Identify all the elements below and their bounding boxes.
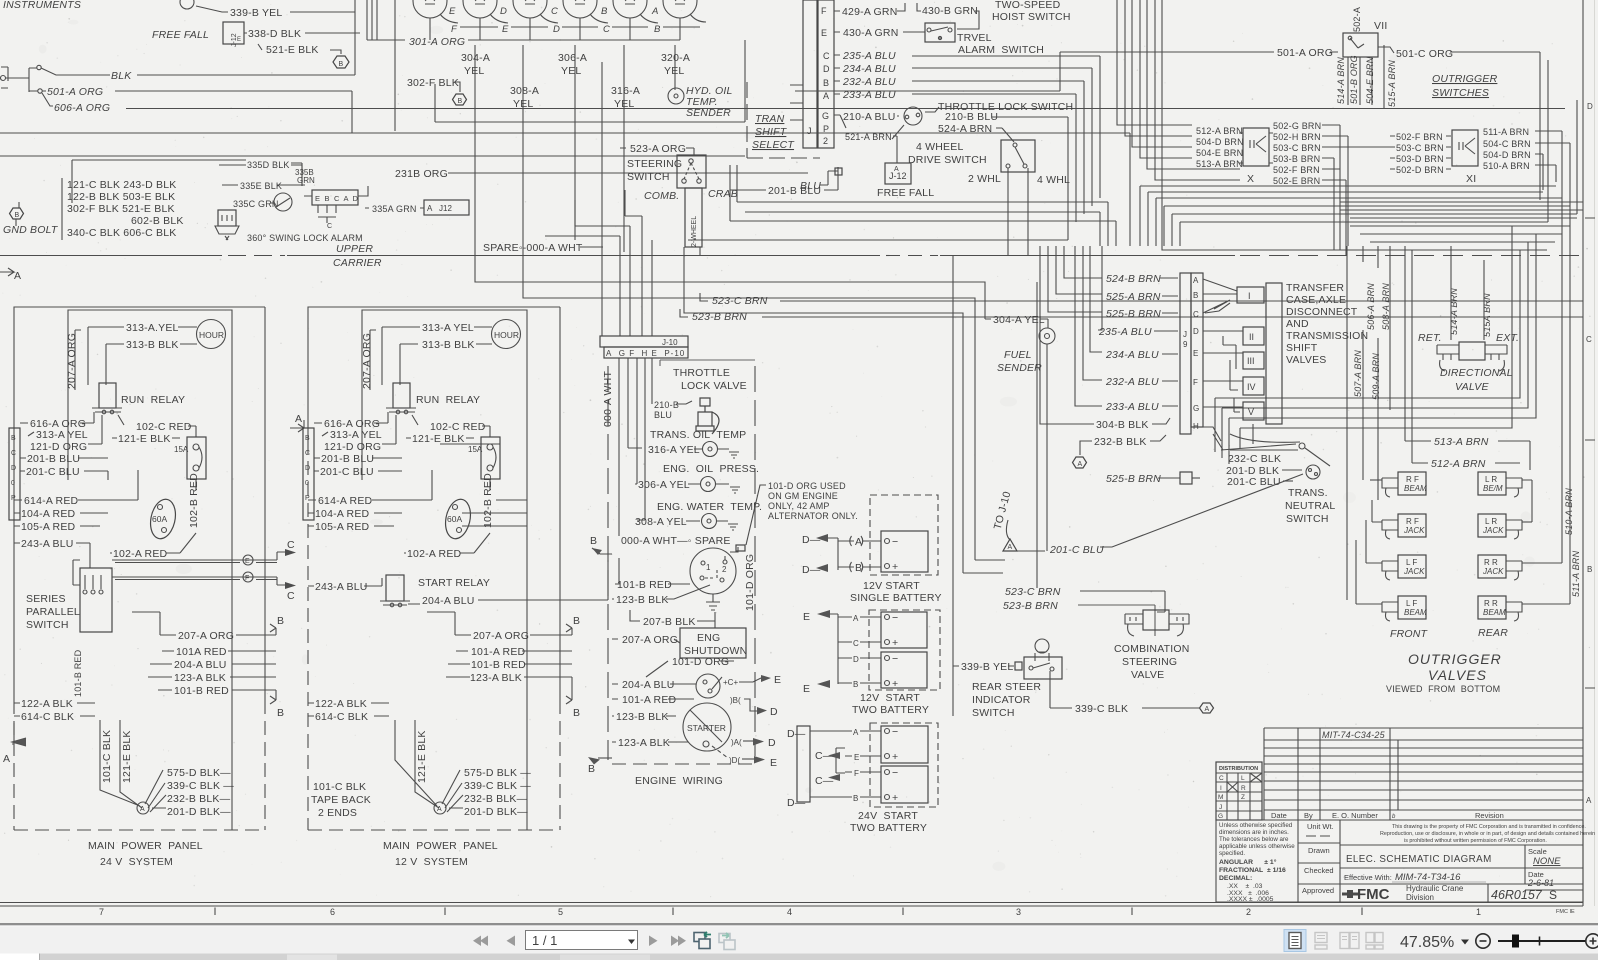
svg-text:SINGLE BATTERY: SINGLE BATTERY	[850, 592, 942, 604]
svg-text:FREE FALL: FREE FALL	[152, 29, 209, 41]
svg-text:501-A ORG: 501-A ORG	[1277, 47, 1333, 59]
svg-text:2: 2	[1246, 907, 1251, 917]
wire 616-A ORG 12v	[314, 412, 388, 423]
svg-text:7: 7	[99, 907, 104, 917]
wire 121-D ORG 12v	[382, 415, 500, 444]
svg-text:dimensions are in inches.: dimensions are in inches.	[1219, 829, 1289, 836]
valve III box	[1243, 352, 1264, 369]
svg-text:12 V SYSTEM: 12 V SYSTEM	[395, 856, 468, 868]
carrier divider line	[0, 255, 1235, 257]
outrigger valve LR JACK	[1478, 514, 1532, 539]
collector box	[1266, 283, 1282, 424]
wire 105-A RED	[14, 525, 100, 527]
svg-text:304-B BLK: 304-B BLK	[1096, 419, 1149, 431]
svg-text:XI: XI	[1466, 173, 1476, 185]
wire 102-C RED	[118, 415, 196, 437]
svg-text:2: 2	[722, 565, 727, 574]
node B arrows 12v	[566, 624, 572, 704]
svg-text:FMC IE: FMC IE	[1556, 909, 1575, 915]
svg-text:B: B	[305, 435, 310, 442]
svg-text:VALVE: VALVE	[1455, 381, 1489, 393]
svg-text:VIEWED FROM BOTTOM: VIEWED FROM BOTTOM	[1386, 684, 1500, 694]
svg-text:101-D ORG: 101-D ORG	[672, 656, 729, 668]
wire 121-E BLK 12v	[406, 437, 474, 439]
svg-text:applicable unless otherwise: applicable unless otherwise	[1219, 843, 1295, 850]
svg-text:316-A YEL: 316-A YEL	[648, 444, 700, 456]
svg-text:+: +	[892, 678, 898, 690]
svg-text:525-B BRN: 525-B BRN	[1106, 473, 1161, 485]
engine wiring box	[608, 366, 755, 760]
wire E F to C arrows	[112, 560, 277, 580]
distributor circle	[690, 548, 736, 594]
SEC-PANEL24	[0, 268, 296, 868]
terminal hex B	[453, 94, 467, 105]
svg-text:BEAM: BEAM	[1404, 608, 1427, 617]
SEC-GAUGES	[367, 0, 795, 252]
svg-text:D: D	[768, 737, 776, 749]
svg-text:123-A BLK: 123-A BLK	[470, 672, 522, 684]
hour meter circle 12v	[492, 320, 521, 349]
wire 501-C ORG	[1378, 47, 1540, 200]
panel 12V outer box	[308, 307, 560, 700]
last page button	[671, 936, 679, 947]
svg-text:C: C	[603, 24, 610, 35]
rear steer indicator switch	[1035, 639, 1049, 653]
svg-text:D—: D—	[787, 728, 806, 740]
node B arrow engine left	[592, 548, 612, 554]
outrigger valve LF JACK	[1366, 520, 1426, 580]
SEC-PANEL12	[290, 307, 608, 868]
svg-text:313-A YEL: 313-A YEL	[330, 429, 382, 441]
wires into node A	[100, 720, 166, 812]
svg-text:REAR STEER: REAR STEER	[972, 681, 1041, 693]
svg-text:506-A BRN: 506-A BRN	[1366, 283, 1376, 330]
terminal hex A rear	[1200, 703, 1214, 713]
svg-text:3: 3	[1016, 907, 1021, 917]
svg-text:TWO BATTERY: TWO BATTERY	[850, 822, 927, 834]
center mesh extra line	[745, 212, 1100, 246]
svg-text:614-A RED: 614-A RED	[318, 495, 373, 507]
svg-text:is prohibited without written: is prohibited without written permission…	[1404, 838, 1547, 844]
svg-text:A: A	[1205, 706, 1210, 713]
svg-text:STEERING: STEERING	[1122, 656, 1177, 668]
svg-text:TRVEL: TRVEL	[957, 32, 992, 44]
svg-text:E: E	[502, 24, 509, 35]
main title block frame	[1216, 820, 1583, 902]
svg-text:504-D BRN: 504-D BRN	[1196, 137, 1244, 147]
svg-text:TRANSFER: TRANSFER	[1286, 282, 1344, 294]
svg-text:4 WHEEL: 4 WHEEL	[916, 141, 964, 153]
connector J-12 box	[223, 22, 244, 44]
wire 204-A BLU 12v	[408, 560, 608, 604]
svg-text:ENG. WATER TEMP.: ENG. WATER TEMP.	[657, 501, 762, 513]
gauge pin letters row1	[449, 6, 658, 17]
svg-text:207-A ORG: 207-A ORG	[66, 333, 78, 389]
svg-text:102-B RED: 102-B RED	[188, 473, 200, 528]
svg-text:A: A	[853, 728, 859, 737]
svg-text:B: B	[573, 615, 580, 627]
wire 243-A BLU	[14, 543, 90, 568]
battery box single	[881, 531, 928, 572]
SEC-TOOLBAR	[0, 923, 1598, 960]
svg-text:ELEC. SCHEMATIC DIAGRAM: ELEC. SCHEMATIC DIAGRAM	[1346, 854, 1492, 865]
vertical trunk x1037	[1036, 282, 1038, 588]
sheet margin edge right	[1594, 0, 1596, 906]
svg-text:B: B	[339, 61, 344, 68]
svg-text:313-A YEL: 313-A YEL	[422, 322, 474, 334]
svg-text:LOCK VALVE: LOCK VALVE	[681, 380, 747, 392]
svg-text:A: A	[855, 536, 862, 548]
svg-text:201-C BLU: 201-C BLU	[1049, 544, 1104, 556]
wire drops from switch X stubs	[1334, 125, 1348, 255]
svg-text:D: D	[305, 465, 310, 472]
svg-text:MAIN POWER PANEL: MAIN POWER PANEL	[383, 840, 498, 852]
svg-text:F: F	[854, 769, 859, 778]
svg-text:C: C	[287, 590, 295, 602]
svg-text:C—: C—	[815, 775, 834, 787]
svg-text:101-B RED: 101-B RED	[471, 659, 526, 671]
wire 606-A ORG	[42, 93, 1565, 109]
descending bundle to J-10	[602, 62, 652, 336]
wire 102-C RED 12v	[412, 415, 490, 437]
gnd wire table bracket	[62, 160, 302, 240]
svg-text:E: E	[854, 753, 859, 762]
svg-text:D: D	[553, 24, 560, 35]
svg-text:207-A ORG: 207-A ORG	[622, 634, 678, 646]
svg-text:121-E BLK: 121-E BLK	[121, 730, 133, 783]
svg-text:C: C	[1586, 335, 1592, 344]
switch X box	[1243, 128, 1269, 166]
bundle below divider to J9	[1048, 246, 1102, 312]
wire 335D BLK	[219, 165, 302, 186]
freefall J-12 box	[885, 163, 911, 184]
svg-text:104-A RED: 104-A RED	[21, 508, 76, 520]
svg-text:B: B	[458, 98, 463, 105]
svg-text:523-C BRN: 523-C BRN	[1005, 586, 1061, 598]
svg-text:360° SWING LOCK ALARM: 360° SWING LOCK ALARM	[247, 233, 363, 243]
svg-text:NEUTRAL: NEUTRAL	[1285, 500, 1335, 512]
svg-text:DRIVE SWITCH: DRIVE SWITCH	[908, 154, 987, 166]
svg-text:316-A: 316-A	[611, 85, 640, 97]
svg-text:MAIN POWER PANEL: MAIN POWER PANEL	[88, 840, 203, 852]
svg-text:339-B YEL: 339-B YEL	[230, 7, 282, 19]
svg-text:specified.: specified.	[1219, 850, 1245, 857]
svg-text:R: R	[1241, 785, 1246, 792]
triangle A node	[1003, 539, 1017, 551]
zone tick marks bottom	[215, 908, 1362, 916]
svg-text:6: 6	[330, 907, 335, 917]
svg-text:101-B RED: 101-B RED	[174, 685, 229, 697]
wire 104-A RED	[14, 512, 108, 514]
swing alarm sounder	[218, 210, 236, 226]
gauge circle 4	[563, 0, 597, 18]
center descending bundle corners	[1117, 0, 1547, 250]
svg-text:J: J	[1219, 804, 1222, 811]
wire 201-C BLU	[20, 471, 108, 480]
svg-text:SWITCH: SWITCH	[26, 619, 69, 631]
svg-text:521-E BLK: 521-E BLK	[266, 44, 319, 56]
gauge circle 5	[613, 0, 647, 18]
svg-text:121-E BLK: 121-E BLK	[416, 730, 428, 783]
svg-text:308-A YEL: 308-A YEL	[635, 516, 687, 528]
svg-text:B: B	[15, 212, 20, 219]
zone letters right edge	[1586, 102, 1593, 805]
wires switch XI right	[1535, 131, 1570, 240]
svg-text:UPPER: UPPER	[336, 243, 373, 255]
svg-text:511-A BRN: 511-A BRN	[1483, 127, 1529, 137]
svg-text:JACK: JACK	[1482, 567, 1504, 576]
svg-text:.XXXX ± .0005: .XXXX ± .0005	[1227, 896, 1274, 903]
svg-text:B: B	[1193, 291, 1198, 300]
svg-text:101-A RED: 101-A RED	[471, 646, 526, 658]
terminal hex B gnd bolt	[10, 208, 24, 219]
svg-text:A: A	[437, 806, 442, 813]
wire steps above J-10	[545, 190, 642, 236]
svg-text:101-B RED: 101-B RED	[73, 649, 83, 697]
node B arrows	[270, 624, 276, 704]
svg-text:233-A BLU: 233-A BLU	[1105, 401, 1159, 413]
4 wheel drive switch box	[1001, 140, 1035, 172]
svg-text:S: S	[1549, 888, 1557, 902]
svg-text:201-B BLU: 201-B BLU	[27, 453, 80, 465]
wires into node A 12v	[395, 720, 463, 812]
toolbar background	[0, 924, 1598, 960]
svg-text:2-6-81: 2-6-81	[1527, 878, 1554, 888]
svg-text:122-B BLK 503-E BLK: 122-B BLK 503-E BLK	[67, 191, 175, 203]
svg-text:B: B	[573, 707, 580, 719]
svg-text:VALVES: VALVES	[1286, 354, 1327, 366]
svg-text:306-A YEL: 306-A YEL	[638, 479, 690, 491]
svg-text:BEAM: BEAM	[1404, 484, 1427, 493]
svg-text:C: C	[551, 6, 558, 17]
terminals single	[885, 539, 890, 544]
svg-text:CASE,AXLE: CASE,AXLE	[1286, 294, 1346, 306]
svg-text:501-A ORG: 501-A ORG	[47, 86, 103, 98]
svg-text:C: C	[327, 223, 332, 230]
right U mesh wires	[1215, 226, 1536, 464]
svg-text:302-F BLK 521-E BLK: 302-F BLK 521-E BLK	[67, 203, 175, 215]
valve II box	[1243, 327, 1264, 345]
svg-text:−: −	[892, 536, 898, 548]
svg-text:EXT.: EXT.	[1496, 332, 1519, 344]
svg-text:0: 0	[11, 480, 15, 487]
svg-text:524-B BRN: 524-B BRN	[1106, 273, 1161, 285]
svg-text:FMC: FMC	[1357, 886, 1390, 903]
svg-text:232-B BLK—: 232-B BLK—	[464, 793, 528, 805]
svg-text:−: −	[892, 726, 898, 738]
svg-text:105-A RED: 105-A RED	[21, 521, 76, 533]
svg-text:207-A ORG: 207-A ORG	[361, 333, 373, 389]
wire drops into relay 12v	[370, 327, 400, 390]
svg-text:210-A BLU: 210-A BLU	[843, 111, 896, 123]
wire 313-B BLK 12v	[400, 343, 492, 345]
svg-text:JACK: JACK	[1403, 526, 1425, 535]
svg-text:232-B BLK—: 232-B BLK—	[167, 793, 231, 805]
svg-text:D: D	[1193, 327, 1199, 336]
svg-text:TRANSMISSION: TRANSMISSION	[1286, 330, 1368, 342]
svg-text:243-A BLU: 243-A BLU	[21, 538, 74, 550]
wire 338-D BLK	[244, 32, 360, 34]
SEC-ENGINE	[588, 293, 1583, 809]
wires 207/101/101/123 12v	[446, 635, 572, 677]
connector J GP2 body	[803, 0, 817, 148]
valve IV box	[1243, 377, 1264, 395]
sheet border right vertical	[1582, 0, 1584, 906]
svg-text:335A GRN: 335A GRN	[372, 204, 417, 214]
svg-text:FUEL: FUEL	[1004, 349, 1032, 361]
svg-text:313-A YEL: 313-A YEL	[36, 429, 88, 441]
right vertical wires outrigger	[1562, 198, 1570, 604]
svg-text:201-C BLU: 201-C BLU	[320, 466, 374, 478]
svg-text:)D(: )D(	[729, 756, 740, 765]
svg-text:F: F	[245, 575, 249, 582]
svg-text:B: B	[11, 435, 16, 442]
svg-text:Effective With:: Effective With:	[1344, 873, 1392, 882]
svg-text:Unit Wt.: Unit Wt.	[1307, 822, 1334, 831]
wire bus upper right of gauges	[435, 40, 745, 122]
svg-text:243-A BLU: 243-A BLU	[315, 581, 368, 593]
svg-text:4 WHL: 4 WHL	[1037, 174, 1070, 186]
travel alarm switch	[925, 23, 955, 42]
svg-text:P: P	[11, 495, 16, 502]
svg-text:521-A BRN: 521-A BRN	[845, 132, 892, 142]
svg-text:The tolerances below are: The tolerances below are	[1219, 836, 1289, 843]
svg-text:511-A BRN: 511-A BRN	[1571, 550, 1581, 597]
svg-text:SWITCH: SWITCH	[1286, 513, 1329, 525]
svg-text:525-A BRN: 525-A BRN	[1106, 291, 1161, 303]
alternator circle	[696, 674, 720, 698]
svg-text:232-A BLU: 232-A BLU	[1105, 376, 1159, 388]
svg-text:2: 2	[823, 136, 828, 146]
svg-text:502-F BRN: 502-F BRN	[1273, 165, 1320, 175]
zoom in	[1586, 934, 1598, 948]
bottom strip (taskbar edge)	[0, 954, 1598, 960]
svg-text:201-D BLK—: 201-D BLK—	[464, 806, 528, 818]
gauge circle 6	[663, 0, 697, 18]
wire 102-A RED	[110, 533, 196, 553]
node A arrow 12v	[290, 420, 304, 432]
svg-text:GRN: GRN	[297, 176, 315, 185]
svg-text:E: E	[774, 674, 781, 686]
svg-text:BEAM: BEAM	[1483, 608, 1506, 617]
breaker 60A 12v	[442, 497, 474, 541]
SEC-TOPLEFT	[0, 0, 1565, 243]
svg-text:509-A BRN: 509-A BRN	[1371, 353, 1381, 400]
svg-text:This drawing is the property o: This drawing is the property of FMC Corp…	[1392, 824, 1586, 830]
svg-text:101-C BLK: 101-C BLK	[101, 730, 113, 783]
outrigger valve LR BEAM	[1478, 472, 1532, 522]
wire 313-B BLK	[106, 343, 197, 345]
wire 121-E BLK	[112, 437, 180, 439]
svg-text:121-D ORG: 121-D ORG	[324, 441, 381, 453]
ground below distributor	[706, 594, 720, 610]
wire 430-B GRN	[917, 3, 921, 11]
right bus corners	[1130, 133, 1556, 246]
SEC-BUSES	[0, 0, 1583, 716]
svg-text:B: B	[601, 6, 608, 17]
svg-text:D—: D—	[802, 534, 821, 546]
svg-text:Scale: Scale	[1528, 847, 1547, 856]
svg-text:606-A ORG: 606-A ORG	[54, 102, 110, 114]
svg-text:SELECT: SELECT	[752, 139, 795, 151]
svg-text:105-A RED: 105-A RED	[315, 521, 370, 533]
svg-text:A: A	[823, 91, 829, 101]
node A arrow left	[0, 268, 14, 276]
wire 102-A RED 12v	[404, 533, 490, 553]
svg-text:B: B	[277, 615, 284, 627]
svg-text:ENG: ENG	[697, 632, 720, 644]
svg-text:101-D ORG: 101-D ORG	[744, 554, 756, 611]
svg-text:YEL: YEL	[513, 98, 533, 110]
svg-text:101-A RED: 101-A RED	[622, 694, 677, 706]
svg-text:235-A BLU: 235-A BLU	[842, 50, 896, 62]
svg-text:304-A YEL: 304-A YEL	[993, 314, 1045, 326]
svg-text:III: III	[1247, 356, 1255, 366]
svg-text:)A(: )A(	[731, 738, 742, 747]
J9 label stub wires	[1150, 278, 1178, 441]
svg-text:SERIES: SERIES	[26, 593, 66, 605]
svg-text:L F: L F	[1406, 558, 1417, 567]
svg-text:232-C BLK: 232-C BLK	[1228, 453, 1281, 465]
svg-text:ALTERNATOR ONLY.: ALTERNATOR ONLY.	[768, 511, 858, 521]
svg-text:HOIST SWITCH: HOIST SWITCH	[992, 11, 1071, 23]
wires from J-10 down	[619, 358, 652, 536]
connector GP2 pin letters	[821, 6, 830, 146]
wire 105-A RED 12v	[308, 525, 527, 527]
svg-text:B: B	[654, 24, 661, 35]
svg-text:A: A	[1008, 544, 1013, 551]
wire 335E BLK	[222, 184, 305, 186]
valve V box	[1243, 402, 1264, 420]
svg-text:101A RED: 101A RED	[176, 646, 227, 658]
gauge drop wires	[430, 18, 680, 40]
12V two battery dashed box	[869, 610, 940, 690]
svg-text:204-A BLU: 204-A BLU	[422, 595, 475, 607]
svg-text:J: J	[1183, 330, 1187, 339]
svg-text:SPARE◦-000-A WHT: SPARE◦-000-A WHT	[483, 242, 583, 254]
svg-text:525-B BRN: 525-B BRN	[1106, 308, 1161, 320]
svg-text:)B(: )B(	[730, 696, 741, 705]
wires 207/101/204/123/101	[148, 635, 276, 690]
svg-text:BLU: BLU	[654, 410, 672, 420]
zoom out	[1476, 934, 1490, 948]
svg-text:A J12: A J12	[427, 204, 452, 213]
svg-text:512-A BRN: 512-A BRN	[1196, 126, 1243, 136]
svg-text:−: −	[892, 653, 898, 665]
svg-text:512-A BRN: 512-A BRN	[1431, 458, 1486, 470]
svg-text:FRACTIONAL ± 1/16: FRACTIONAL ± 1/16	[1219, 867, 1286, 874]
svg-text:START RELAY: START RELAY	[418, 577, 490, 589]
svg-text:204-A BLU: 204-A BLU	[622, 679, 675, 691]
wire 614-A RED	[14, 470, 138, 500]
directional valve wires	[1451, 246, 1484, 340]
terminals two	[885, 615, 890, 620]
svg-text:YEL: YEL	[664, 65, 684, 77]
svg-text:ON GM ENGINE: ON GM ENGINE	[768, 491, 838, 501]
svg-text:201-C BLU: 201-C BLU	[26, 466, 80, 478]
svg-text:510-A BRN: 510-A BRN	[1483, 161, 1530, 171]
svg-text:201-B BLU: 201-B BLU	[768, 185, 821, 197]
svg-text:308-A: 308-A	[510, 85, 539, 97]
svg-text:204-A BLU: 204-A BLU	[174, 659, 227, 671]
svg-text:304-A: 304-A	[461, 52, 490, 64]
wire 313-A YEL 12v	[382, 326, 492, 328]
svg-text:502-G BRN: 502-G BRN	[1273, 121, 1321, 131]
hyd oil temp sender circle	[668, 88, 684, 104]
svg-text:B: B	[588, 763, 595, 775]
svg-text:B: B	[855, 562, 862, 574]
svg-text:502-H BRN: 502-H BRN	[1273, 132, 1321, 142]
